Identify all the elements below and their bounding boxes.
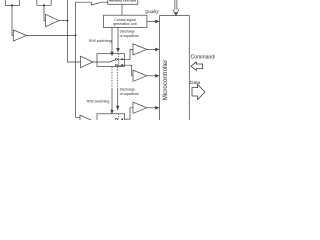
svg-text:Quality: Quality bbox=[145, 9, 159, 14]
svg-text:Memory cell unit: Memory cell unit bbox=[109, 0, 137, 3]
op-amp C (read amp 3) bbox=[133, 102, 147, 113]
switch contact c3 bbox=[115, 118, 117, 120]
electrode box E1 bbox=[5, 0, 19, 5]
wire bus1 vertical to amp3 bbox=[67, 0, 80, 62]
dashed gang line SW1 bbox=[118, 54, 120, 67]
electrode box E2 bbox=[37, 0, 51, 5]
node junction dot bus2 bbox=[75, 34, 77, 36]
wire amp3 to switch pivot bbox=[93, 61, 110, 63]
op-amp buffer A2 bbox=[46, 14, 60, 26]
svg-text:of capacitors: of capacitors bbox=[120, 34, 140, 38]
wire ampB to microcontroller bbox=[147, 75, 156, 77]
op-amp B (read amp 2) bbox=[133, 70, 147, 81]
op-amp buffer A1 bbox=[13, 30, 26, 41]
wire amp1 output to bus2 bbox=[26, 34, 75, 36]
wire E2 stem to amp2 bbox=[44, 5, 46, 20]
op-amp A3 bbox=[81, 56, 93, 67]
data block arrow (right pointing) bbox=[192, 84, 205, 99]
op-amp A (read amp 1) bbox=[133, 44, 147, 55]
capacitor mark k3 bbox=[121, 119, 123, 121]
wire amp2 output to bus1 bbox=[59, 20, 67, 22]
top box (clipped) bbox=[108, 0, 138, 4]
svg-text:generation unit: generation unit bbox=[113, 22, 136, 26]
bus double arrow into microcontroller bbox=[174, 0, 176, 10]
commands block arrow (left pointing) bbox=[191, 62, 203, 70]
wire bus2 vertical to amp5 bbox=[76, 2, 108, 117]
wire control box to microcontroller bbox=[147, 20, 156, 22]
svg-text:R/W switching: R/W switching bbox=[89, 39, 112, 43]
node junction dot bus1 bbox=[66, 20, 68, 22]
capacitor mark k1 bbox=[121, 58, 123, 60]
wire E1 stem to amp1 bbox=[12, 5, 13, 35]
capacitor mark k2 bbox=[121, 64, 123, 66]
svg-text:of capacitors: of capacitors bbox=[120, 92, 140, 96]
dashed gang line SW2 bbox=[118, 114, 120, 120]
switch contact c2 bbox=[115, 64, 117, 66]
control line R/W lower (dashed then solid) bbox=[111, 67, 113, 90]
wire ampA to microcontroller bbox=[147, 48, 156, 50]
microcontroller box U2 bbox=[160, 16, 190, 122]
wire top box to control box bbox=[121, 4, 123, 15]
wire contact2 to ampB bbox=[117, 65, 133, 76]
node terminal dot E1 bbox=[11, 4, 13, 6]
wire contact1 to ampA bbox=[117, 49, 133, 59]
wire contact3 to ampC bbox=[125, 108, 134, 119]
wire ampC to microcontroller bbox=[147, 107, 156, 109]
node terminal dot E2 bbox=[43, 4, 45, 6]
op-amp A5 (bottom, clipped) bbox=[80, 115, 94, 128]
svg-text:Control signal: Control signal bbox=[114, 18, 136, 22]
svg-text:R/W switching: R/W switching bbox=[87, 99, 110, 103]
switch contact c1 bbox=[115, 58, 117, 60]
svg-text:Microcontroller: Microcontroller bbox=[162, 60, 169, 101]
control line discharge upper bbox=[117, 27, 119, 48]
control line discharge lower (dashed then solid) bbox=[117, 67, 119, 90]
control line R/W upper bbox=[111, 27, 113, 52]
svg-text:Commands: Commands bbox=[191, 54, 215, 60]
switch box SW2 (R/W switching, clipped) bbox=[97, 114, 125, 127]
svg-text:Data: Data bbox=[190, 80, 200, 86]
wire bus2 turn to amp5 input bbox=[76, 116, 81, 118]
switch box SW1 (R/W switching) bbox=[97, 54, 125, 67]
control signal generation unit box U1 bbox=[103, 15, 146, 27]
switch lever SW1 bbox=[110, 60, 116, 63]
